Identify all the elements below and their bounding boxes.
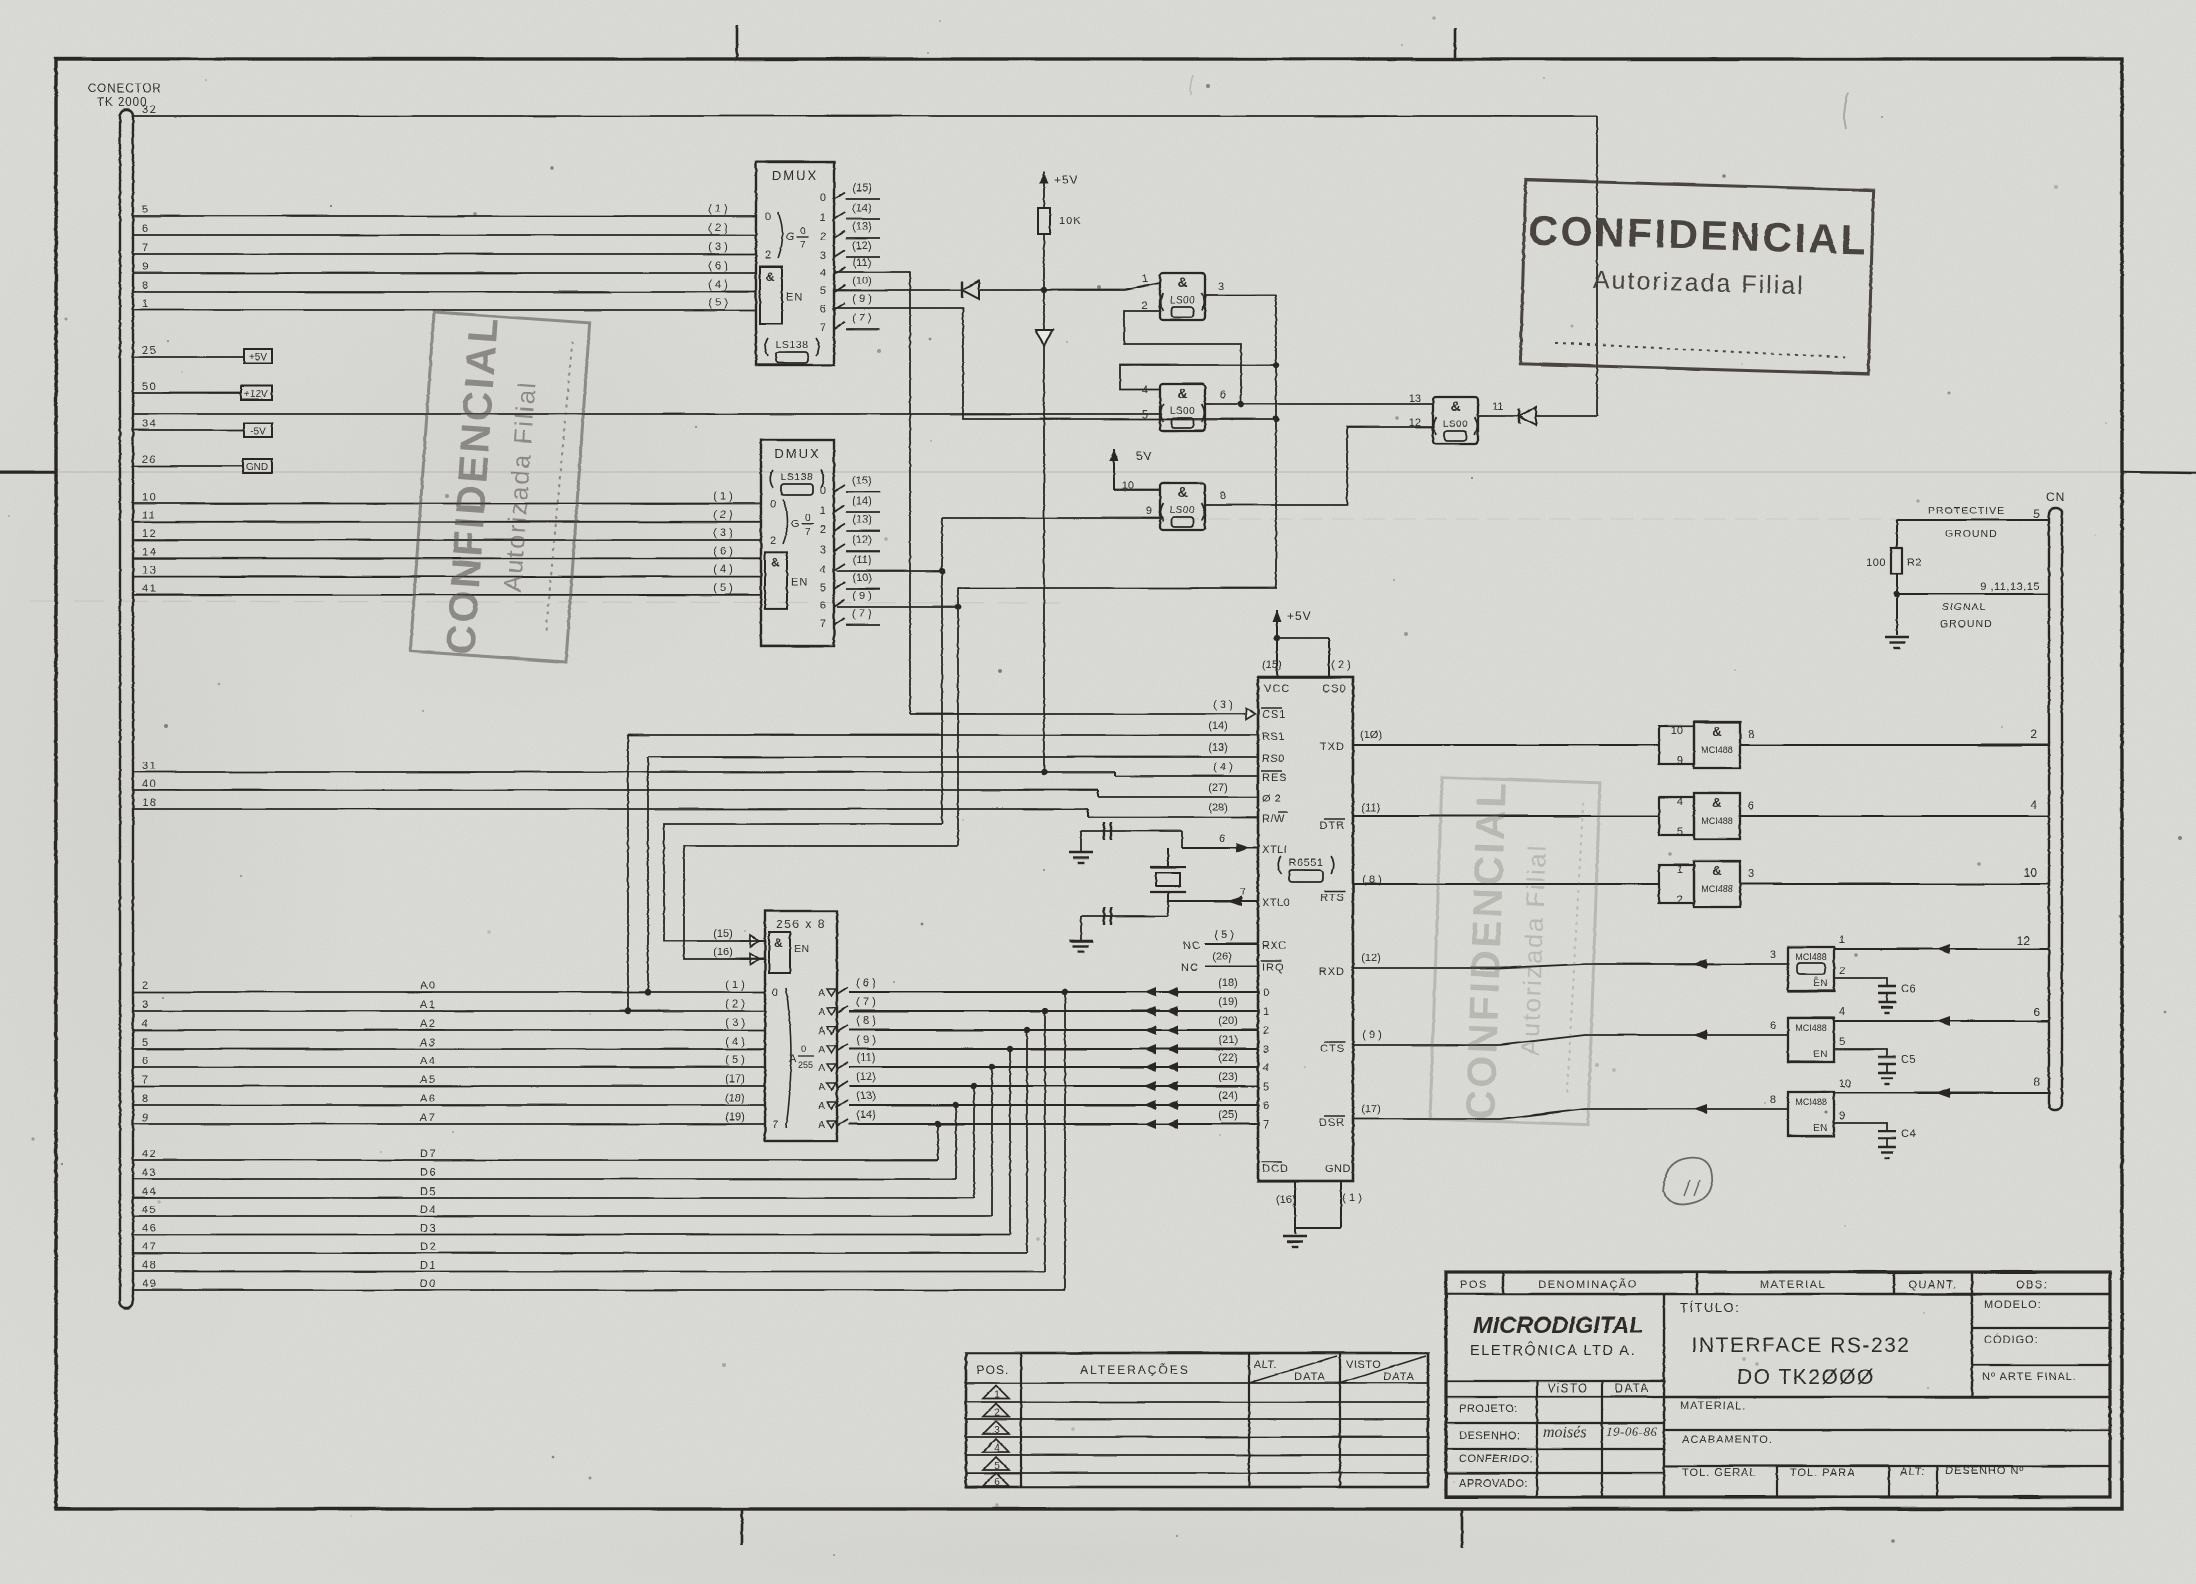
svg-text:(15): (15) [852,182,872,194]
svg-text:5: 5 [994,1461,1000,1472]
svg-text:D4: D4 [420,1204,437,1216]
svg-text:(20): (20) [1218,1015,1238,1027]
svg-text:5: 5 [1677,826,1683,838]
svg-text:DO TK2ØØØ: DO TK2ØØØ [1737,1366,1875,1389]
svg-text:+5V: +5V [249,352,267,363]
svg-text:( 4 ): ( 4 ) [725,1036,745,1048]
svg-text:DATA: DATA [1383,1371,1415,1383]
svg-text:&: & [1712,863,1721,878]
svg-text:( 2 ): ( 2 ) [725,998,745,1010]
svg-text:5: 5 [820,582,826,594]
svg-text:DMUX: DMUX [774,446,820,461]
svg-text:A7: A7 [420,1112,436,1124]
svg-text:9: 9 [1146,505,1152,517]
svg-text:5: 5 [142,1037,150,1049]
svg-text:0: 0 [820,192,826,204]
svg-text:MODELO:: MODELO: [1984,1299,2042,1311]
svg-text:1: 1 [142,298,150,310]
svg-text:(18): (18) [725,1092,745,1104]
svg-text:OBS:: OBS: [2016,1279,2048,1291]
svg-text:( 2 ): ( 2 ) [1331,659,1351,671]
svg-text:RXC: RXC [1262,940,1287,952]
svg-text:1: 1 [1142,273,1148,285]
svg-text:10: 10 [142,492,157,504]
svg-text:( 3 ): ( 3 ) [708,241,728,253]
svg-text:0: 0 [820,485,826,497]
svg-text:8: 8 [142,280,150,292]
svg-text:( 7 ): ( 7 ) [852,608,872,620]
svg-text:44: 44 [142,1186,157,1198]
svg-text:INTERFACE RS-232: INTERFACE RS-232 [1692,1334,1911,1357]
svg-text:IRQ: IRQ [1262,962,1285,974]
svg-text:( 7 ): ( 7 ) [852,312,872,324]
svg-text:MICRODIGITAL: MICRODIGITAL [1473,1312,1644,1338]
svg-text:(21): (21) [1218,1034,1238,1046]
svg-text:D1: D1 [420,1260,437,1272]
svg-text:D2: D2 [420,1241,437,1253]
svg-text:DENOMINAÇÃO: DENOMINAÇÃO [1538,1278,1638,1291]
svg-text:ViSTO: ViSTO [1548,1383,1589,1395]
svg-text:( 2 ): ( 2 ) [708,222,728,234]
svg-text:1: 1 [994,1390,1000,1401]
svg-text:6: 6 [142,223,150,235]
svg-text:45: 45 [142,1204,157,1216]
svg-text:APROVADO:: APROVADO: [1459,1478,1528,1490]
svg-text:4: 4 [820,564,826,576]
svg-text:ALTEERAÇÕES: ALTEERAÇÕES [1080,1362,1190,1377]
svg-text:&: & [1712,724,1721,739]
svg-text:EN: EN [1813,978,1828,989]
svg-text:4: 4 [820,267,826,279]
svg-text:( 7 ): ( 7 ) [856,996,876,1008]
svg-text:( 4 ): ( 4 ) [708,279,728,291]
svg-text:( 1 ): ( 1 ) [713,491,733,503]
svg-text:-5V: -5V [250,426,266,437]
svg-text:0: 0 [765,211,771,223]
svg-text:&: & [1712,795,1721,810]
svg-text:3: 3 [1748,868,1754,880]
svg-text:A2: A2 [420,1018,436,1030]
svg-text:POS: POS [1460,1279,1488,1291]
svg-text:3: 3 [1263,1044,1269,1056]
svg-text:D7: D7 [420,1148,437,1160]
svg-text:moisés: moisés [1543,1424,1587,1441]
svg-text:C5: C5 [1901,1054,1916,1066]
svg-text:3: 3 [820,544,826,556]
svg-text:7: 7 [142,242,150,254]
svg-text:( 2 ): ( 2 ) [713,509,733,521]
svg-text:DESENHO:: DESENHO: [1459,1430,1520,1442]
svg-text:7: 7 [820,322,826,334]
svg-text:DMUX: DMUX [772,168,818,183]
svg-text:11: 11 [1492,401,1503,413]
svg-text:7: 7 [805,527,811,538]
svg-text:43: 43 [142,1167,157,1179]
svg-text:Nº ARTE FINAL.: Nº ARTE FINAL. [1982,1371,2077,1383]
svg-text:LS138: LS138 [776,339,809,351]
svg-text:3: 3 [142,999,150,1011]
svg-text:D3: D3 [420,1223,437,1235]
svg-text:CN: CN [2046,490,2065,504]
svg-text:A: A [818,1007,825,1018]
svg-text:2: 2 [1839,965,1845,977]
svg-text:(11): (11) [1362,802,1381,814]
svg-text:D0: D0 [420,1278,437,1290]
svg-text:XTL0: XTL0 [1262,897,1290,909]
svg-text:7: 7 [142,1074,150,1086]
svg-text:(16): (16) [713,946,733,958]
svg-text:2: 2 [770,535,776,547]
svg-text:50: 50 [142,381,157,393]
svg-text:R/W: R/W [1262,813,1285,825]
svg-text:4: 4 [1839,1006,1845,1018]
svg-text:&: & [766,270,775,284]
svg-text:( 6 ): ( 6 ) [856,977,876,989]
svg-text:1: 1 [1263,1006,1269,1018]
svg-text:8: 8 [1220,490,1226,502]
svg-text:25: 25 [142,345,157,357]
svg-text:EN: EN [1813,1049,1828,1060]
svg-text:GROUND: GROUND [1940,618,1993,630]
svg-text:DCD: DCD [1262,1163,1289,1175]
svg-text:MCI488: MCI488 [1701,884,1733,894]
svg-text:(13): (13) [852,221,872,233]
svg-text:(18): (18) [1218,977,1238,989]
svg-text:PROJETO:: PROJETO: [1459,1403,1518,1415]
svg-text:TK 2000: TK 2000 [97,97,147,109]
svg-text:EN: EN [791,577,808,589]
svg-text:5: 5 [1839,1036,1845,1048]
svg-text:A3: A3 [420,1037,436,1049]
svg-text:9: 9 [1839,1110,1845,1122]
svg-text:13: 13 [142,565,157,577]
svg-text:A: A [818,1026,825,1037]
svg-text:G: G [791,518,800,530]
svg-text:6: 6 [1219,833,1225,845]
svg-text:5: 5 [820,285,826,297]
svg-text:49: 49 [142,1278,157,1290]
svg-text:47: 47 [142,1241,157,1253]
svg-text:TXD: TXD [1320,741,1345,753]
svg-text:( 9 ): ( 9 ) [856,1034,876,1046]
svg-text:(15): (15) [852,475,872,487]
svg-text:MATERIAL: MATERIAL [1760,1279,1826,1291]
svg-text:TÍTULO:: TÍTULO: [1680,1300,1740,1315]
svg-text:(17): (17) [1361,1103,1381,1115]
svg-text:3: 3 [1218,281,1224,293]
svg-text:(12): (12) [1361,952,1381,964]
svg-text:6: 6 [2033,1005,2040,1019]
svg-text:7: 7 [1263,1119,1269,1131]
svg-text:CÓDIGO:: CÓDIGO: [1984,1333,2039,1346]
svg-text:6: 6 [1263,1100,1269,1112]
svg-text:4: 4 [1677,796,1683,808]
svg-text:MCI488: MCI488 [1701,745,1733,755]
svg-text:LS00: LS00 [1443,419,1468,430]
svg-text:ELETRÔNICA LTD A.: ELETRÔNICA LTD A. [1470,1342,1636,1359]
svg-text:1: 1 [1839,934,1845,946]
svg-text:2: 2 [142,980,150,992]
svg-text:R2: R2 [1907,557,1922,569]
svg-text:9: 9 [142,261,150,273]
svg-text:46: 46 [142,1223,157,1235]
svg-text:&: & [774,936,783,950]
svg-text:(11): (11) [853,257,872,269]
svg-text:5: 5 [2033,507,2040,521]
svg-text:( 9 ): ( 9 ) [1362,1029,1382,1041]
svg-text:1: 1 [820,212,826,224]
svg-text:11: 11 [142,510,156,522]
svg-text:9: 9 [1677,755,1683,767]
svg-text:A: A [818,1063,825,1074]
svg-text:TOL. PARA: TOL. PARA [1790,1467,1855,1479]
svg-text:34: 34 [142,418,157,430]
svg-text:13: 13 [1409,393,1421,405]
svg-text:42: 42 [142,1148,157,1160]
svg-text:2: 2 [765,249,771,261]
svg-text:DATA: DATA [1294,1371,1326,1383]
svg-text:4: 4 [142,1018,150,1030]
svg-text:GND: GND [1325,1163,1351,1175]
svg-text:6: 6 [820,303,826,315]
svg-text:A: A [818,1101,825,1112]
svg-text:18: 18 [142,797,157,809]
svg-text:2: 2 [994,1408,1000,1419]
svg-text:ALT:: ALT: [1900,1466,1925,1478]
svg-text:3: 3 [820,250,826,262]
svg-text:RTS: RTS [1320,892,1345,904]
svg-text:(12): (12) [852,534,872,546]
svg-text:32: 32 [142,104,157,116]
svg-text:PROTECTIVE: PROTECTIVE [1928,505,2005,517]
svg-text:Ø 2: Ø 2 [1262,793,1281,805]
svg-text:DESENHO Nº: DESENHO Nº [1945,1465,2024,1477]
svg-text:POS.: POS. [977,1363,1010,1377]
svg-text:(11): (11) [857,1052,876,1064]
svg-text:(14): (14) [852,495,872,507]
svg-text:4: 4 [1263,1062,1269,1074]
svg-text:( 6 ): ( 6 ) [708,260,728,272]
svg-text:0: 0 [772,987,778,999]
svg-text:( 4 ): ( 4 ) [1213,761,1233,773]
svg-text:G: G [786,231,795,243]
svg-text:QUANT.: QUANT. [1908,1279,1957,1291]
svg-text:(14): (14) [856,1109,876,1121]
svg-text:EN: EN [1813,1123,1828,1134]
svg-text:10K: 10K [1059,215,1082,227]
svg-text:ACABAMENTO.: ACABAMENTO. [1682,1434,1773,1446]
svg-text:(24): (24) [1218,1090,1238,1102]
svg-text:XTLI: XTLI [1262,844,1287,856]
svg-text:A: A [789,1053,797,1065]
svg-text:A4: A4 [420,1055,436,1067]
svg-text:0: 0 [805,513,811,524]
svg-text:LS00: LS00 [1170,295,1195,306]
svg-text:19-06-86: 19-06-86 [1606,1424,1658,1439]
svg-text:SIGNAL: SIGNAL [1942,601,1987,613]
svg-text:(23): (23) [1218,1071,1238,1083]
svg-text:LS00: LS00 [1170,406,1195,417]
svg-text:(15): (15) [1262,659,1282,671]
svg-text:( 1 ): ( 1 ) [1342,1192,1362,1204]
svg-text:(1Ø): (1Ø) [1360,729,1382,741]
svg-text:R6551: R6551 [1289,857,1324,869]
svg-text:(15): (15) [713,928,733,940]
svg-text:3: 3 [994,1425,1000,1436]
svg-text:( 9 ): ( 9 ) [852,293,872,305]
svg-text:(12): (12) [852,240,872,252]
svg-text:MCI488: MCI488 [1795,952,1827,962]
svg-text:12: 12 [1409,417,1421,429]
svg-text:(11): (11) [853,554,872,566]
svg-text:8: 8 [142,1093,150,1105]
svg-text:RES: RES [1262,772,1288,784]
svg-text:8: 8 [1748,729,1754,741]
svg-text:4: 4 [2030,798,2037,812]
svg-text:100: 100 [1866,557,1886,569]
svg-text:(22): (22) [1218,1052,1238,1064]
svg-text:LS138: LS138 [781,471,814,483]
svg-text:D6: D6 [420,1167,437,1179]
svg-text:A1: A1 [420,999,436,1011]
svg-text:&: & [1177,274,1187,290]
svg-text:D5: D5 [420,1186,437,1198]
svg-text:( 8 ): ( 8 ) [856,1015,876,1027]
svg-text:MATERIAL.: MATERIAL. [1680,1400,1746,1412]
svg-text:( 1 ): ( 1 ) [725,979,745,991]
svg-text:26: 26 [142,454,157,466]
svg-text:VCC: VCC [1264,683,1290,695]
svg-text:0: 0 [770,499,776,511]
svg-text:NC: NC [1181,962,1199,974]
svg-text:GND: GND [246,462,268,473]
svg-text:( 5 ): ( 5 ) [708,297,728,309]
svg-text:GROUND: GROUND [1945,528,1998,540]
svg-text:DSR: DSR [1319,1117,1345,1129]
svg-text:31: 31 [142,760,157,772]
svg-text:+5V: +5V [1054,173,1079,187]
svg-text:2: 2 [1263,1025,1269,1037]
svg-text:2: 2 [820,524,826,536]
svg-text:+5V: +5V [1287,609,1312,623]
svg-text:(13): (13) [852,514,872,526]
svg-text:1: 1 [1677,864,1683,876]
svg-text:&: & [1450,398,1460,414]
svg-text:( 4 ): ( 4 ) [713,564,733,576]
svg-text:10: 10 [1839,1078,1851,1090]
svg-text:41: 41 [142,583,157,595]
svg-text:2: 2 [2030,727,2037,741]
svg-text:CONECTOR: CONECTOR [88,83,162,95]
svg-text:CS0: CS0 [1322,683,1346,695]
svg-text:A6: A6 [420,1093,436,1105]
svg-text:48: 48 [142,1260,157,1272]
svg-text:(14): (14) [852,202,872,214]
svg-text:C6: C6 [1901,983,1916,995]
svg-text:MCI488: MCI488 [1795,1097,1827,1107]
svg-text:DTR: DTR [1319,820,1345,832]
svg-text:RS1: RS1 [1262,731,1285,743]
svg-text:LS00: LS00 [1170,505,1195,516]
svg-text:14: 14 [142,546,157,558]
svg-text:( 9 ): ( 9 ) [852,590,872,602]
svg-text:(12): (12) [856,1071,876,1083]
svg-text:( 5 ): ( 5 ) [725,1054,745,1066]
svg-text:( 6 ): ( 6 ) [713,545,733,557]
svg-text:A5: A5 [420,1074,436,1086]
svg-text:12: 12 [142,528,157,540]
svg-text:5: 5 [1142,409,1148,421]
svg-text:CS1: CS1 [1262,709,1286,721]
svg-text:7: 7 [800,240,806,251]
svg-text:(10): (10) [852,275,872,287]
svg-text:(14): (14) [1208,720,1228,732]
svg-text:7: 7 [772,1119,778,1131]
svg-text:2: 2 [1677,894,1683,906]
svg-text:1: 1 [820,505,826,517]
svg-text:(25): (25) [1218,1109,1238,1121]
svg-text:255: 255 [798,1060,813,1070]
svg-text:( 3 ): ( 3 ) [1213,699,1233,711]
svg-text:9: 9 [142,1112,150,1124]
svg-text:A: A [818,1045,825,1056]
svg-text:7: 7 [1240,886,1246,898]
svg-text:0: 0 [1263,987,1269,999]
svg-text:(13): (13) [1208,742,1228,754]
svg-text:&: & [1177,385,1187,401]
svg-text:7: 7 [820,618,826,630]
svg-text:TOL. GERAL: TOL. GERAL [1682,1467,1757,1479]
svg-text:(19): (19) [725,1111,745,1123]
svg-text:8: 8 [2033,1075,2040,1089]
svg-text:5: 5 [142,204,150,216]
svg-text:( 3 ): ( 3 ) [713,527,733,539]
svg-text:A0: A0 [420,980,436,992]
svg-text:(19): (19) [1218,996,1238,1008]
svg-text:(16): (16) [1276,1194,1296,1206]
svg-text:6: 6 [1220,389,1226,401]
svg-text:256 x 8: 256 x 8 [776,917,826,931]
svg-text:4: 4 [994,1443,1000,1454]
svg-text:(28): (28) [1208,802,1228,814]
svg-text:0: 0 [800,226,806,237]
svg-text:EN: EN [786,292,803,304]
svg-text:6: 6 [1748,800,1754,812]
svg-text:9 ,11,13,15: 9 ,11,13,15 [1980,581,2040,593]
svg-text:(27): (27) [1208,782,1228,794]
svg-text:( 3 ): ( 3 ) [725,1017,745,1029]
svg-text:CTS: CTS [1320,1043,1345,1055]
svg-text:CONFERIDO:: CONFERIDO: [1459,1453,1533,1465]
svg-text:6: 6 [142,1055,150,1067]
svg-text:5: 5 [1263,1081,1269,1093]
svg-text:&: & [1177,484,1187,500]
svg-text:2: 2 [820,231,826,243]
svg-text:10: 10 [2024,866,2038,880]
svg-text:C4: C4 [1901,1128,1916,1140]
svg-text:A: A [818,988,825,999]
svg-text:ALT.: ALT. [1254,1359,1277,1371]
svg-text:RXD: RXD [1319,966,1345,978]
svg-text:VISTO: VISTO [1346,1359,1381,1371]
svg-text:4: 4 [1142,384,1148,396]
svg-text:A: A [818,1082,825,1093]
svg-text:(17): (17) [725,1073,745,1085]
svg-text:10: 10 [1671,725,1683,737]
svg-text:6: 6 [994,1477,1000,1488]
svg-text:12: 12 [2017,934,2031,948]
svg-text:( 1 ): ( 1 ) [708,203,728,215]
